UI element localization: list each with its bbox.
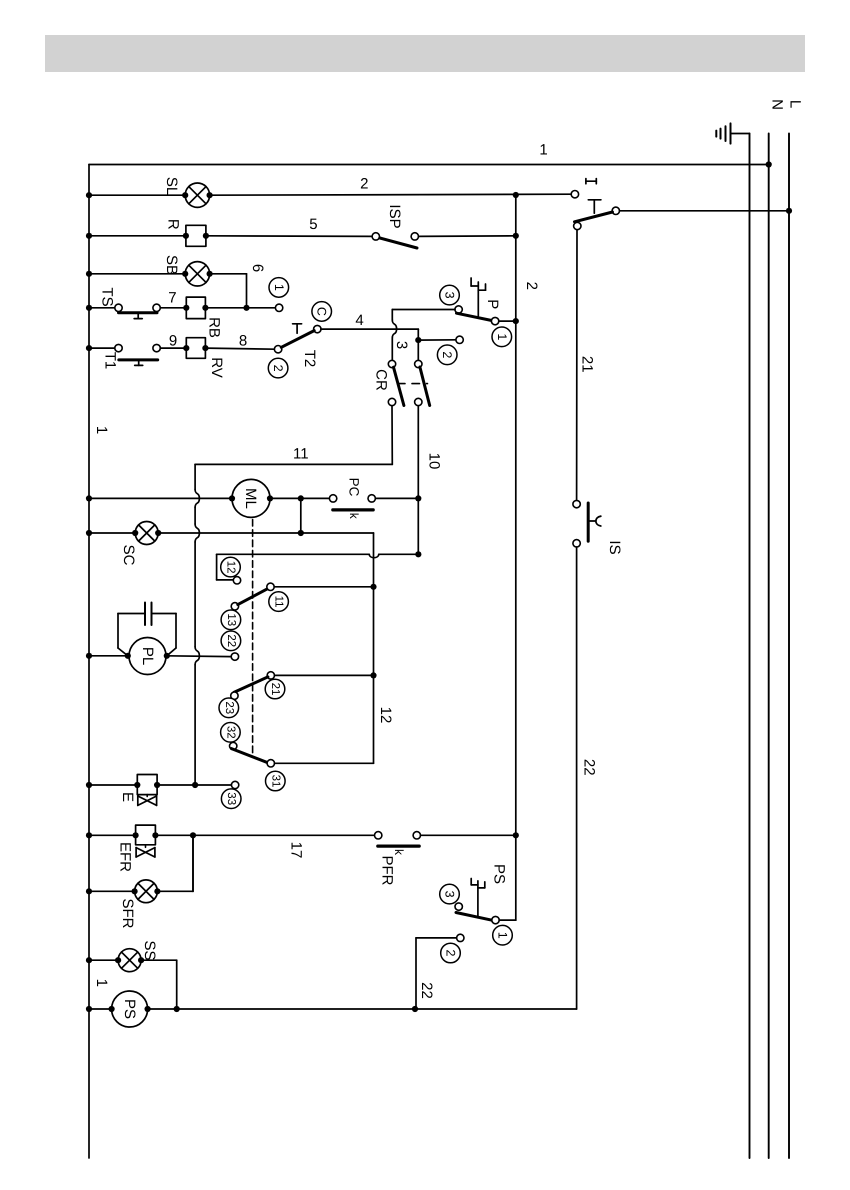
svg-text:22: 22 [581, 759, 598, 776]
pressure switch P symbol [471, 278, 485, 316]
node junction sw21-collector [370, 672, 376, 678]
terminal circled 2 T2 [268, 358, 288, 378]
pressure switch PS symbol [471, 879, 485, 917]
wire collector vertical [373, 533, 375, 763]
node PL right [164, 653, 170, 659]
lamp SFR label [119, 899, 136, 929]
node bus-EFR [86, 832, 92, 838]
svg-text:ML: ML [242, 488, 259, 509]
relay CR right top contact [415, 360, 422, 367]
svg-text:33: 33 [225, 792, 237, 805]
svg-text:T2: T2 [301, 350, 318, 368]
svg-text:E: E [119, 792, 136, 802]
node SC right [155, 530, 161, 536]
wire sw31 to collector [275, 762, 374, 764]
wire 11 horizontal [195, 463, 392, 465]
switch IS label [606, 540, 623, 554]
svg-text:5: 5 [309, 216, 317, 233]
svg-text:SFR: SFR [119, 899, 136, 929]
lamp SB [185, 262, 209, 286]
timer switch 21 contact [267, 672, 274, 679]
motor PL [129, 638, 166, 675]
wire 21 vertical [576, 230, 578, 501]
node junction SCrow-branch [298, 530, 304, 536]
wire PS to line2 [499, 919, 516, 921]
svg-text:17: 17 [288, 842, 305, 859]
wire branch to terminal 2 [418, 339, 456, 341]
wire 17 EFR to PFR [155, 834, 374, 836]
svg-text:10: 10 [426, 453, 443, 470]
pressure switch P blade [457, 313, 493, 320]
lamp SB label [163, 255, 180, 275]
svg-text:SL: SL [163, 177, 180, 195]
svg-text:1: 1 [496, 932, 510, 939]
wire 4 T2 to corner [321, 328, 418, 330]
capacitor housing [118, 614, 176, 656]
wire CR right bottom down wire 10 [417, 406, 419, 499]
wire 21 label [578, 356, 595, 373]
lamp SL label [163, 177, 180, 195]
node ML right [267, 495, 273, 501]
svg-text:P: P [484, 299, 501, 309]
wire sw21 to collector [275, 674, 374, 676]
switch ISP label [386, 204, 403, 228]
timer switch 11 blade [238, 589, 268, 605]
contact PFR k label [392, 849, 406, 856]
svg-text:C: C [315, 307, 329, 316]
wire 10 label [426, 453, 443, 470]
wire 2 label [360, 175, 368, 192]
header banner [45, 35, 805, 72]
terminal circled 21 [265, 679, 285, 699]
thermostat T1 right contact [153, 344, 160, 351]
wire 1 label [539, 141, 547, 158]
wire left bus vertical [88, 165, 90, 1159]
node junction line10 end [415, 551, 421, 557]
node PS left [109, 1006, 115, 1012]
wire 8 RV to T2 [205, 348, 274, 349]
wire 11 vertical segment d [194, 665, 196, 785]
node bus-row7 [86, 305, 92, 311]
wire PC to line10 [375, 497, 418, 499]
terminal circled 12 [221, 557, 241, 577]
svg-text:7: 7 [168, 289, 176, 306]
wire P to line2 [499, 320, 516, 322]
thermostat TS left contact [115, 304, 122, 311]
svg-text:2: 2 [444, 950, 458, 957]
contact PFR right [413, 832, 420, 839]
timer switch 11 contact [267, 583, 274, 590]
wire SS corner [141, 960, 177, 1009]
svg-text:13: 13 [225, 613, 237, 626]
resistor RB label [206, 317, 223, 338]
pressure switch P label [484, 299, 501, 309]
svg-text:TS: TS [99, 287, 116, 306]
wire bus to TS [89, 307, 115, 309]
wire 12box to line10 [217, 554, 419, 557]
node junction wire1-N [766, 161, 772, 167]
node L label [787, 100, 804, 108]
solenoid EFR valve [136, 845, 155, 857]
svg-text:2: 2 [523, 282, 540, 290]
svg-text:22: 22 [418, 982, 435, 999]
wire bus to EFR [89, 834, 136, 836]
timer switch 21 lower contact [231, 692, 238, 699]
motor PL label [139, 647, 156, 665]
terminal circled 11 [269, 592, 289, 612]
node junction wire17-line2 [513, 832, 519, 838]
thermostat T1 label [102, 352, 119, 370]
svg-text:IS: IS [606, 540, 623, 554]
wire bus to SFR [89, 890, 135, 892]
node SB left [182, 271, 188, 277]
wire 22 branch label [418, 982, 435, 999]
wire bus to SB [89, 273, 185, 275]
contact PC left [329, 495, 336, 502]
terminal circled 3 P [440, 285, 460, 305]
lamp SC [135, 522, 158, 545]
timer terminal pivot 12 [233, 577, 240, 584]
relay CR right bottom contact [415, 398, 422, 405]
wire 5 label [309, 216, 317, 233]
resistor RV label [208, 357, 225, 378]
wire bus label 1 mid [93, 426, 110, 434]
node bus-E [86, 782, 92, 788]
thermostat TS right contact [153, 304, 160, 311]
wire bus label 1 low [93, 979, 110, 987]
terminal circled 3 PS [440, 884, 460, 904]
timer terminal box 12 [217, 554, 234, 580]
wire 11 vertical segment b [194, 507, 196, 524]
wire 11 hop over SC row [195, 524, 199, 542]
svg-text:23: 23 [223, 701, 235, 714]
timer switch 31 blade [232, 749, 270, 764]
svg-text:T1: T1 [102, 352, 119, 370]
svg-text:3: 3 [443, 292, 457, 299]
wire 11 vertical segment c [194, 542, 196, 647]
terminal circled 33 [221, 789, 241, 809]
svg-text:11: 11 [293, 446, 309, 463]
contact PC right [368, 495, 375, 502]
node bus-R [86, 233, 92, 239]
pressure switch PS blade [456, 913, 493, 921]
contact PC bar [333, 508, 373, 511]
node bus-SS [86, 957, 92, 963]
svg-text:2: 2 [271, 365, 285, 372]
switch IS bottom contact [573, 540, 580, 547]
wire 5 R to ISP [206, 235, 372, 238]
terminal circled C T2 [312, 302, 332, 322]
svg-text:11: 11 [273, 596, 285, 608]
relay CR label [373, 369, 390, 391]
wire 11 vertical segment a [194, 464, 196, 489]
wire E to terminal 33 [157, 784, 231, 786]
node junction PC-line10 [415, 495, 421, 501]
wire ISP to line2 [419, 235, 516, 238]
wire RB to terminal 1 [205, 307, 275, 309]
node SS left [115, 957, 121, 963]
thermostat TS label [99, 287, 116, 306]
pressure switch P aux contact [456, 336, 463, 343]
node junction wire6-row7 [243, 305, 249, 311]
node SL right [207, 192, 213, 198]
svg-text:22: 22 [225, 634, 237, 647]
node SC left [132, 530, 138, 536]
node SFR right [154, 888, 160, 894]
switch I lower contact [574, 222, 581, 229]
node EFR left [133, 832, 139, 838]
timer switch 31 contact [267, 760, 274, 767]
ground [716, 123, 749, 143]
solenoid E valve [138, 795, 157, 806]
node E left [134, 782, 140, 788]
node bus-ML [86, 495, 92, 501]
node PS right [145, 1006, 151, 1012]
motor ML [232, 479, 270, 517]
wire 1 horizontal [89, 164, 769, 166]
svg-text:3: 3 [443, 891, 457, 898]
wire 11 hop over ML row [195, 489, 199, 507]
pressure switch PS aux contact [457, 934, 464, 941]
capacitor PL [145, 603, 152, 626]
svg-text:R: R [165, 219, 182, 230]
wire line10 lower [417, 498, 419, 554]
node SB right [207, 271, 213, 277]
terminal circled 31 [266, 771, 286, 791]
wire TS to RB [160, 307, 186, 309]
wire bus to R [89, 235, 186, 237]
node junction P-line2 [513, 318, 519, 324]
svg-text:ISP: ISP [386, 204, 403, 228]
node junction 22-PSrow [412, 1006, 418, 1012]
switch I actuator [588, 200, 601, 213]
svg-text:PS: PS [491, 864, 508, 884]
terminal circled 22 [221, 631, 241, 651]
svg-text:12: 12 [377, 707, 394, 724]
thermostat T2 upper contact [314, 325, 321, 332]
wire bus to T1 [89, 347, 115, 349]
svg-text:CR: CR [373, 369, 390, 391]
wire bus to SC [89, 532, 135, 534]
node junction wire2-line2 [513, 192, 519, 198]
solenoid EFR label [117, 842, 134, 872]
thermostat T1 left contact [115, 344, 122, 351]
thermostat T2 actuator [293, 324, 302, 334]
thermostat TS blade closed [119, 311, 158, 314]
timer switch 21 blade [234, 677, 268, 693]
node RV left [183, 345, 189, 351]
terminal circled 1 P [492, 327, 512, 347]
svg-text:RB: RB [206, 317, 223, 338]
terminal circled 32 [221, 723, 241, 743]
relay CR left blade [394, 367, 404, 405]
svg-text:N: N [769, 99, 786, 110]
switch I pivot contact [612, 207, 619, 214]
wire 22 label [581, 759, 598, 776]
wire 11 hop over PL row [195, 647, 199, 665]
svg-text:2: 2 [440, 351, 454, 358]
timer switch 11 lower contact [231, 603, 238, 610]
lamp SS label [141, 940, 158, 960]
node EFR right [152, 832, 158, 838]
svg-text:PS: PS [121, 999, 138, 1019]
thermostat T1 actuator [135, 360, 143, 366]
svg-text:1: 1 [539, 141, 547, 158]
terminal circled 1 PS [493, 925, 513, 945]
node SL left [182, 192, 188, 198]
relay CR right blade [420, 367, 430, 406]
lamp SFR [135, 880, 158, 903]
pressure switch P moving contact [491, 317, 498, 324]
switch I blade [575, 212, 613, 222]
node junction EFR-SFR [190, 832, 196, 838]
switch IS top contact [573, 500, 580, 507]
wire 6 horizontal [210, 273, 247, 275]
terminal circled 2 P [437, 345, 457, 365]
contact PFR bar [378, 844, 419, 847]
node bus-SFR [86, 888, 92, 894]
node RB left [183, 305, 189, 311]
svg-text:21: 21 [578, 356, 595, 373]
svg-text:31: 31 [269, 775, 281, 788]
motor PS label [121, 999, 138, 1019]
svg-text:8: 8 [239, 333, 247, 350]
thermostat T2 blade [281, 331, 314, 348]
contact PC label [347, 478, 362, 497]
svg-text:1: 1 [272, 284, 286, 291]
switch ISP blade [380, 238, 417, 248]
timer terminal 33 [231, 781, 238, 788]
wire 6 vertical [246, 274, 248, 308]
node R right [203, 233, 209, 239]
wire bus to ML [89, 497, 232, 499]
svg-text:PL: PL [139, 647, 156, 665]
wire CR left bottom down [391, 406, 393, 465]
node junction ML-branch [298, 495, 304, 501]
node bus-row9 [86, 345, 92, 351]
node junction wire4-branch [415, 337, 421, 343]
svg-text:SC: SC [120, 545, 137, 566]
wire sw11 to collector [274, 586, 373, 588]
resistor RV [186, 338, 205, 359]
wire 9 label [169, 333, 177, 350]
switch I fixed contact [571, 191, 578, 198]
svg-text:32: 32 [224, 726, 236, 739]
svg-text:k: k [347, 513, 361, 520]
contact PC k label [347, 513, 361, 520]
wire 12 label [377, 707, 394, 724]
wire SC to collector [158, 532, 373, 534]
contact PFR left [375, 832, 382, 839]
resistor R label [165, 219, 182, 230]
wire 3 P to corner [392, 309, 455, 311]
thermostat T2 label [301, 350, 318, 368]
node ML left [229, 495, 235, 501]
svg-text:EFR: EFR [117, 842, 134, 872]
wire 4 label [355, 312, 363, 329]
thermostat TS actuator [134, 313, 142, 319]
terminal circled 13 [221, 610, 241, 630]
solenoid E coil [137, 775, 157, 795]
svg-text:21: 21 [269, 683, 281, 696]
contact PFR label [379, 856, 396, 886]
terminal circled 1 [269, 278, 289, 298]
wire I to L rail [620, 210, 790, 212]
node junction I-L [786, 208, 792, 214]
wire 22 PS branch [416, 938, 457, 1009]
wire 8 label [239, 333, 247, 350]
switch ISP right contact [411, 233, 418, 240]
wire 11 label [293, 446, 309, 463]
svg-text:2: 2 [360, 175, 368, 192]
svg-text:1: 1 [495, 333, 509, 340]
resistor RB [186, 297, 205, 319]
svg-text:12: 12 [225, 561, 237, 574]
switch I label [586, 179, 596, 184]
relay CR link dashed [398, 383, 428, 385]
wire 3 label [393, 341, 410, 349]
pressure switch PS label [491, 864, 508, 884]
terminal circled 23 [219, 698, 239, 718]
switch IS bar [587, 503, 590, 541]
svg-text:1: 1 [93, 979, 110, 987]
node RV right [202, 345, 208, 351]
svg-text:RV: RV [208, 357, 225, 378]
node E right [154, 782, 160, 788]
thermostat T1 blade open [119, 358, 158, 361]
terminal small row7 end [275, 304, 282, 311]
lamp SC label [120, 545, 137, 566]
svg-text:SB: SB [163, 255, 180, 275]
svg-text:SS: SS [141, 940, 158, 960]
wire ML to PC [270, 497, 329, 499]
node junction sw11-collector [370, 584, 376, 590]
terminal circled 2 PS [441, 943, 461, 963]
wire bus to SS [89, 959, 118, 961]
node R left [183, 233, 189, 239]
wire SFR corner [157, 835, 193, 891]
switch IS actuator [588, 516, 601, 526]
wire PE rail [749, 134, 751, 1159]
node bus-PL [86, 653, 92, 659]
node PL left [125, 653, 131, 659]
timer terminal 13-22 [231, 653, 238, 660]
wire bus to E [89, 784, 137, 786]
wire 3 vertical to CR [392, 310, 396, 361]
pressure switch PS fixed contact [455, 903, 462, 910]
node SS right [138, 957, 144, 963]
relay CR left top contact [388, 360, 395, 367]
lamp SS [118, 949, 141, 972]
relay CR left bottom contact [388, 398, 395, 405]
wire 17 label [288, 842, 305, 859]
pressure switch P fixed contact [455, 306, 462, 313]
motor ML label [242, 488, 259, 509]
wire T1 to RV [160, 347, 186, 349]
node SFR left [132, 888, 138, 894]
wire 2 SL to switch I [210, 194, 572, 195]
svg-text:4: 4 [355, 312, 363, 329]
wire bus to PL [89, 655, 129, 657]
wire N rail [768, 134, 770, 1159]
solenoid EFR coil [136, 825, 156, 845]
wire 17 PFR to line2 [421, 834, 516, 836]
terminal small PLrow [0, 0, 1, 1]
svg-text:3: 3 [393, 341, 410, 349]
wire 22 vertical [576, 547, 578, 1009]
thermostat T2 lower contact [274, 346, 281, 353]
svg-text:PFR: PFR [379, 856, 396, 886]
